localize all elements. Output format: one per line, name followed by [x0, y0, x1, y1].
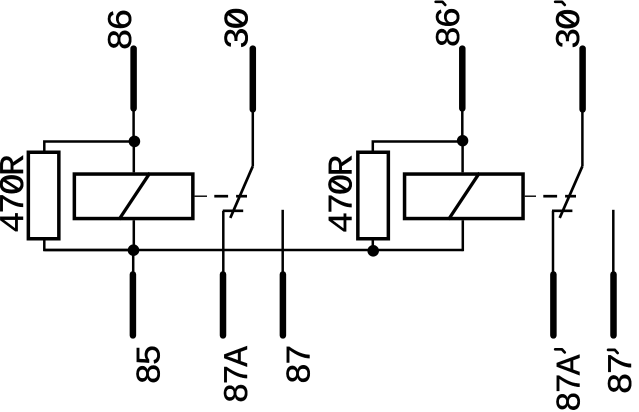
- wire resistor R2 bottom to rail: [372, 241, 375, 251]
- wire junction to resistor R2 branch: [373, 142, 463, 151]
- svg-text:47OR: 47OR: [323, 156, 362, 234]
- wire junction to coil K1 top: [133, 141, 136, 172]
- wire 30' bar to switch pivot: [581, 109, 584, 166]
- terminal 85 pin bar: [130, 274, 137, 335]
- svg-text:85: 85: [131, 346, 170, 384]
- switch SW1 armature (30 to 87A): [230, 166, 253, 218]
- terminal 86' pin bar: [459, 49, 466, 109]
- svg-text:87: 87: [603, 354, 639, 394]
- svg-text:87: 87: [281, 346, 320, 384]
- svg-text:3O: 3O: [551, 10, 590, 49]
- wire junction to 85 bar: [132, 250, 135, 272]
- terminal 30 pin bar: [250, 49, 257, 110]
- relay coil K1 body: [74, 174, 193, 219]
- terminal 87A pin bar: [220, 274, 227, 335]
- coil K1 diagonal: [119, 173, 150, 220]
- mechanical link K2 dash a: [543, 195, 557, 198]
- wire junction to coil K2 top: [461, 141, 464, 173]
- node junction dot (86' / coil K2 / R2): [457, 135, 468, 146]
- terminal 87' pin bar: [610, 274, 617, 335]
- contact 87A' bar: [552, 209, 572, 212]
- mechanical link K1 dash b: [236, 195, 247, 198]
- svg-text:86: 86: [103, 10, 142, 50]
- relay coil K2 body: [405, 174, 524, 219]
- wire coil K1 bottom to rail: [133, 220, 136, 250]
- svg-text:87A: 87A: [551, 354, 590, 412]
- node junction dot (R2 / rail): [367, 245, 379, 257]
- label 470R R2 zero slash: [331, 180, 348, 191]
- mechanical link K1 thin lead: [195, 195, 207, 197]
- terminal 86 pin bar: [130, 49, 137, 109]
- resistor R2 470R body: [358, 152, 389, 239]
- label 87A' apostrophe: [555, 349, 565, 352]
- label 30' apostrophe: [555, 2, 565, 5]
- label 87' apostrophe: [608, 350, 618, 353]
- contact 87A bar: [223, 209, 243, 212]
- label 470R R1 zero slash: [3, 179, 20, 190]
- wire contact to 87 terminal: [281, 210, 284, 272]
- wire 86 bar to junction: [132, 108, 135, 141]
- svg-text:3O: 3O: [219, 9, 258, 49]
- switch SW2 armature (30' to 87A'): [560, 166, 583, 218]
- svg-text:87A: 87A: [219, 346, 258, 404]
- wire coil K2 bottom to rail: [462, 220, 465, 251]
- node junction dot (86 / coil K1 / R1): [129, 136, 141, 148]
- svg-text:47OR: 47OR: [0, 155, 34, 233]
- coil K2 diagonal: [449, 173, 480, 220]
- label 86' apostrophe: [436, 2, 446, 5]
- wire 30 bar to switch pivot: [252, 109, 255, 166]
- wire resistor R1 bottom to rail: [44, 241, 133, 251]
- node junction dot (coil K1 / rail / 85): [128, 244, 140, 256]
- terminal 87 pin bar: [280, 274, 287, 335]
- terminal 87A' pin bar: [550, 274, 557, 335]
- wire contact to 87A' terminal: [552, 211, 555, 272]
- mechanical link K2 thin lead: [525, 195, 536, 197]
- label 30' zero slash: [559, 13, 576, 25]
- wire contact to 87A terminal: [222, 211, 225, 272]
- label 30 zero slash: [227, 13, 244, 25]
- wire contact to 87' terminal: [612, 210, 615, 272]
- mechanical link K2 dash b: [565, 195, 576, 198]
- resistor R1 470R body: [28, 152, 58, 239]
- wire common rail 85 net: [44, 249, 463, 252]
- wire junction to resistor branch: [44, 142, 134, 151]
- mechanical link K1 dash a: [214, 195, 228, 198]
- terminal 30' pin bar: [579, 49, 586, 110]
- svg-text:86: 86: [431, 9, 470, 48]
- wire 86' bar to junction: [461, 108, 464, 141]
